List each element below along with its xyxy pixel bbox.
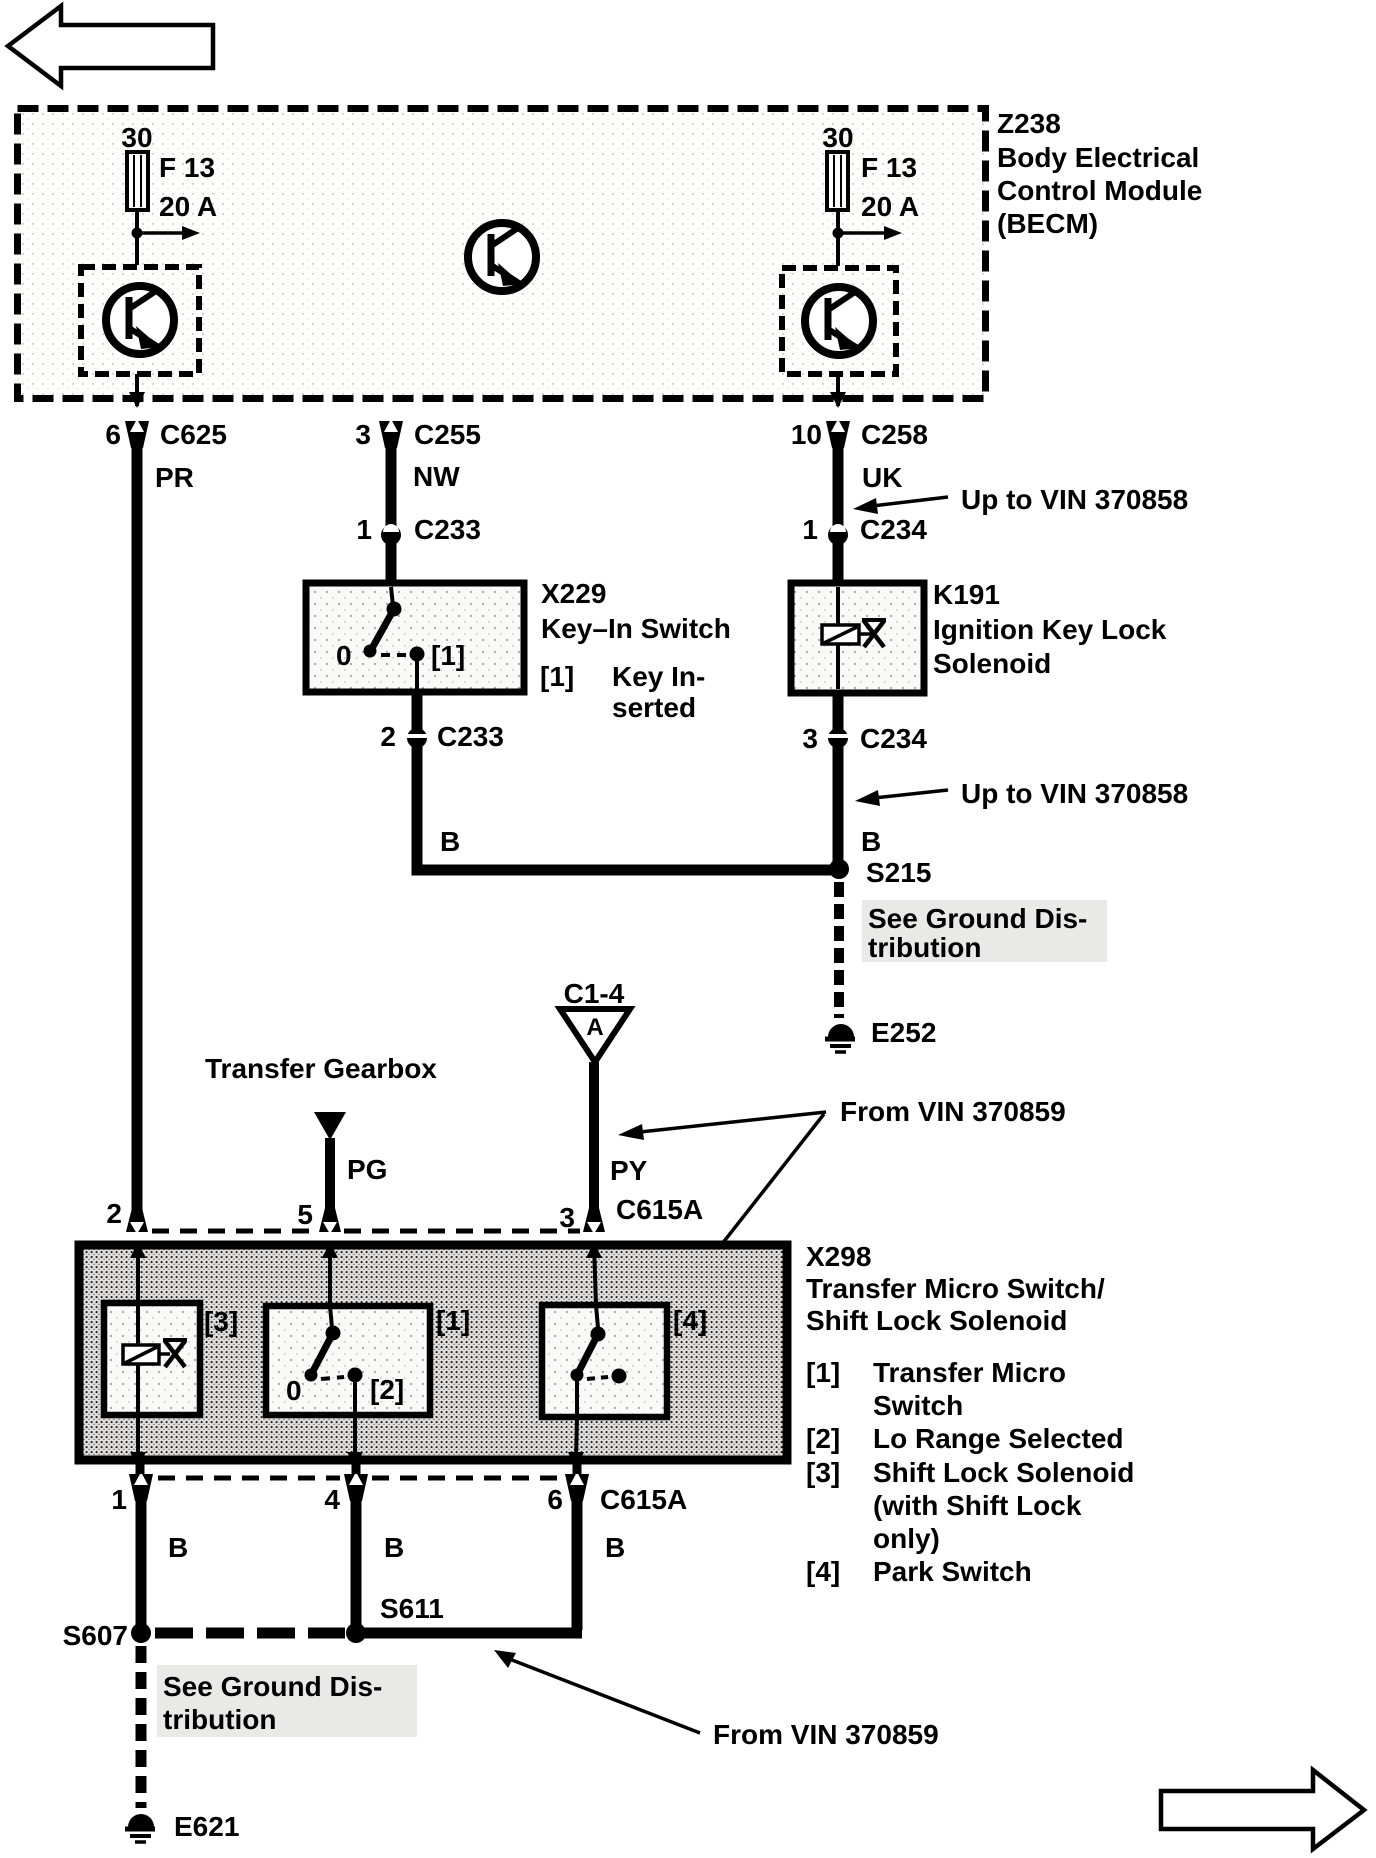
navigation arrow bottom-right: [1161, 1770, 1364, 1849]
svg-text:[2]: [2]: [370, 1374, 404, 1405]
svg-text:[3]: [3]: [806, 1457, 840, 1488]
switch [1] sub-box (transfer micro switch): [266, 1305, 470, 1415]
node junction dot left: [132, 228, 143, 239]
assembly X298 Transfer Micro Switch / Shift Lock Solenoid box: [79, 1245, 787, 1460]
svg-text:Shift Lock Solenoid: Shift Lock Solenoid: [806, 1305, 1067, 1336]
svg-text:B: B: [440, 826, 460, 857]
svg-text:[1]: [1]: [431, 640, 465, 671]
connector C233 pin 1 (inline): [356, 514, 481, 545]
wire stubs X298 bottom to forks: [136, 1462, 145, 1474]
svg-text:See Ground Dis-: See Ground Dis-: [868, 903, 1087, 934]
svg-text:0: 0: [286, 1375, 302, 1406]
svg-text:Z238: Z238: [997, 108, 1061, 139]
svg-text:4: 4: [324, 1484, 340, 1515]
wire PY: [589, 1062, 599, 1226]
label Z238 BECM: [997, 108, 1202, 239]
svg-text:Transfer Micro: Transfer Micro: [873, 1357, 1066, 1388]
svg-text:(BECM): (BECM): [997, 208, 1098, 239]
svg-text:C615A: C615A: [600, 1484, 687, 1515]
svg-text:30: 30: [121, 122, 152, 153]
svg-text:Ignition Key Lock: Ignition Key Lock: [933, 614, 1167, 645]
svg-text:B: B: [605, 1532, 625, 1563]
svg-text:[4]: [4]: [673, 1305, 707, 1336]
connector C1-4 (triangle A): [560, 978, 630, 1062]
svg-text:3: 3: [355, 419, 371, 450]
svg-text:Switch: Switch: [873, 1390, 963, 1421]
wire dashed connector line C615A top: [152, 1229, 318, 1234]
wire pin3 branch (right, x=594): [586, 1242, 602, 1305]
svg-text:Key–In Switch: Key–In Switch: [541, 613, 731, 644]
svg-text:PG: PG: [347, 1154, 387, 1185]
svg-text:See Ground Dis-: See Ground Dis-: [163, 1671, 382, 1702]
node junction dot right: [833, 228, 844, 239]
transistor (middle, BECM): [468, 223, 536, 291]
fuse F13 left (30, 20 A): [121, 122, 217, 222]
note Up to VIN 370858 (upper): [853, 484, 1188, 515]
label X229: [540, 578, 731, 723]
svg-text:UK: UK: [862, 462, 902, 493]
wire through pin2 branch (left, x=138): [130, 1242, 146, 1468]
connector C234 pin 1 (inline): [802, 514, 927, 545]
wire B pin4 down: [351, 1498, 362, 1630]
note See Ground Distribution (upper): [862, 900, 1107, 963]
svg-text:20 A: 20 A: [159, 191, 217, 222]
ground E252: [825, 1017, 936, 1052]
svg-text:K191: K191: [933, 579, 1000, 610]
svg-text:[3]: [3]: [204, 1306, 238, 1337]
svg-text:From VIN 370859: From VIN 370859: [840, 1096, 1066, 1127]
svg-text:6: 6: [547, 1484, 563, 1515]
connector C258 pin 10: [791, 419, 928, 450]
svg-text:C234: C234: [860, 723, 927, 754]
svg-text:6: 6: [105, 419, 121, 450]
svg-text:Up to VIN 370858: Up to VIN 370858: [961, 484, 1188, 515]
svg-text:Shift Lock Solenoid: Shift Lock Solenoid: [873, 1457, 1134, 1488]
connector C255 pin 3: [355, 419, 481, 450]
svg-text:1: 1: [356, 514, 372, 545]
svg-text:3: 3: [802, 723, 818, 754]
svg-text:Key In-: Key In-: [612, 661, 705, 692]
wire dashed S215 to E252: [834, 882, 844, 1018]
wire B from X229 down and right to S215: [417, 692, 835, 870]
svg-text:2: 2: [106, 1198, 122, 1229]
wire B pin1 down: [136, 1498, 147, 1630]
svg-text:F 13: F 13: [159, 152, 215, 183]
svg-text:Lo Range Selected: Lo Range Selected: [873, 1423, 1124, 1454]
svg-text:20 A: 20 A: [861, 191, 919, 222]
wire UK lower from K191 to S215: [833, 692, 844, 868]
wire S611 to pin6 wire: [356, 1628, 582, 1639]
wire branch arrow right (left): [137, 226, 200, 240]
svg-text:PY: PY: [610, 1155, 648, 1186]
svg-text:1: 1: [802, 514, 818, 545]
connector C615A top row pins 2,5,3: [106, 1194, 703, 1233]
node S215 splice: [829, 859, 849, 879]
svg-text:E621: E621: [174, 1811, 239, 1842]
wire NW: [386, 444, 397, 582]
svg-text:B: B: [384, 1532, 404, 1563]
solenoid [3] sub-box (shift lock solenoid): [104, 1303, 238, 1415]
solenoid K191 box: [791, 583, 924, 693]
svg-text:C255: C255: [414, 419, 481, 450]
svg-text:(with Shift Lock: (with Shift Lock: [873, 1490, 1082, 1521]
wire PG with down-arrow head: [314, 1112, 346, 1140]
svg-text:Transfer Micro Switch/: Transfer Micro Switch/: [806, 1273, 1105, 1304]
svg-text:[1]: [1]: [806, 1357, 840, 1388]
note Up to VIN 370858 (lower): [855, 778, 1188, 809]
wire transistor to BECM border (left): [135, 374, 139, 406]
svg-text:A: A: [586, 1014, 603, 1041]
svg-text:Up to VIN 370858: Up to VIN 370858: [961, 778, 1188, 809]
svg-text:S607: S607: [63, 1620, 128, 1651]
svg-text:From VIN 370859: From VIN 370859: [713, 1719, 939, 1750]
svg-text:1: 1: [111, 1484, 127, 1515]
svg-text:C615A: C615A: [616, 1194, 703, 1225]
wire fuse to junction (left): [135, 210, 139, 265]
switch [4] sub-box (park switch): [542, 1305, 707, 1417]
svg-text:X229: X229: [541, 578, 606, 609]
svg-text:C625: C625: [160, 419, 227, 450]
svg-text:Transfer Gearbox: Transfer Gearbox: [205, 1053, 437, 1084]
label K191: [933, 579, 1167, 679]
svg-text:serted: serted: [612, 692, 696, 723]
switch X229 Key-In Switch box: [306, 583, 524, 692]
svg-text:X298: X298: [806, 1241, 871, 1272]
svg-text:F 13: F 13: [861, 152, 917, 183]
note From VIN 370859 (lower) with arrow: [494, 1650, 939, 1750]
wire dashed connector line C615A bottom: [158, 1476, 340, 1481]
svg-text:C258: C258: [861, 419, 928, 450]
svg-text:B: B: [861, 826, 881, 857]
svg-text:3: 3: [559, 1202, 575, 1233]
svg-text:PR: PR: [155, 462, 194, 493]
connector C234 pin 3 (inline): [802, 723, 927, 754]
svg-text:30: 30: [822, 122, 853, 153]
wire fuse to junction (right): [836, 210, 840, 266]
svg-text:5: 5: [297, 1199, 313, 1230]
svg-text:NW: NW: [413, 461, 460, 492]
svg-text:[2]: [2]: [806, 1423, 840, 1454]
ground E621: [125, 1811, 239, 1842]
connector forks bottom row: [129, 1474, 153, 1501]
svg-text:Control Module: Control Module: [997, 175, 1202, 206]
wire PR (left vertical): [132, 444, 143, 1226]
note From VIN 370859 (upper) with two arrows: [618, 1096, 1066, 1290]
wire UK: [833, 444, 844, 582]
connector feet at C615A (top): [126, 1208, 148, 1232]
wire branch arrow right (right): [838, 226, 902, 240]
svg-text:C1-4: C1-4: [564, 978, 625, 1009]
module Z238 BECM dashed box: [18, 109, 986, 399]
svg-text:C234: C234: [860, 514, 927, 545]
svg-text:2: 2: [380, 721, 396, 752]
svg-text:Body Electrical: Body Electrical: [997, 142, 1199, 173]
svg-text:S215: S215: [866, 857, 931, 888]
svg-text:10: 10: [791, 419, 822, 450]
svg-text:tribution: tribution: [868, 932, 982, 963]
wire transistor to BECM border (right): [836, 374, 840, 406]
svg-text:S611: S611: [380, 1593, 444, 1624]
svg-text:[4]: [4]: [806, 1556, 840, 1587]
svg-text:C233: C233: [437, 721, 504, 752]
svg-text:Solenoid: Solenoid: [933, 648, 1051, 679]
wire below switch [1] to box bottom: [347, 1415, 363, 1468]
wire pin5 branch (middle, x=330): [322, 1242, 338, 1305]
svg-text:only): only): [873, 1523, 940, 1554]
transistor (BECM output driver, left) dashed box: [81, 267, 199, 374]
transistor (BECM output driver, right) dashed box: [782, 268, 896, 374]
svg-text:[1]: [1]: [540, 661, 574, 692]
fuse F13 right (30, 20 A): [822, 122, 919, 222]
svg-text:C233: C233: [414, 514, 481, 545]
note See Ground Distribution (lower): [157, 1665, 417, 1737]
svg-text:E252: E252: [871, 1017, 936, 1048]
navigation arrow top-left: [8, 6, 213, 86]
node S611 splice with label: [346, 1623, 366, 1643]
label X298 block: [806, 1241, 1134, 1587]
svg-text:B: B: [168, 1532, 188, 1563]
connector C233 pin 2 (inline): [380, 721, 504, 752]
svg-text:0: 0: [336, 640, 352, 671]
svg-text:tribution: tribution: [163, 1704, 277, 1735]
svg-text:Park Switch: Park Switch: [873, 1556, 1032, 1587]
wire B pin6 down: [572, 1498, 583, 1630]
wire dashed S607 to S611: [155, 1628, 345, 1639]
wire below switch [4] to box bottom: [568, 1417, 584, 1468]
connector C615A bottom row pins 1,4,6: [111, 1484, 687, 1515]
connector C625 pin 6: [105, 419, 227, 450]
svg-text:[1]: [1]: [436, 1305, 470, 1336]
wire dashed S607 to E621: [136, 1646, 147, 1808]
